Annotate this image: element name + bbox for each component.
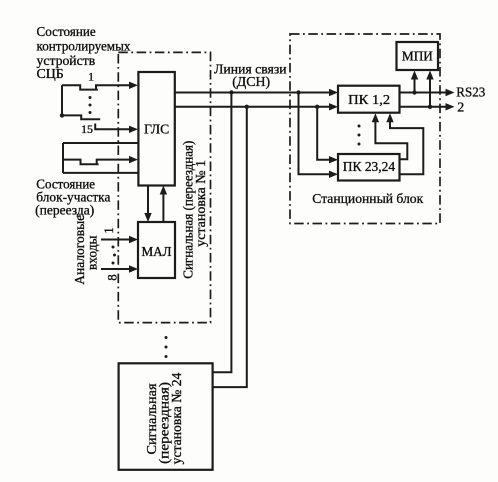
junction dot line A x414 <box>412 90 416 94</box>
arrowhead up into MPI left <box>411 71 418 80</box>
ellipsis dots between installation boxes <box>165 336 168 339</box>
wire: analog input 8 <box>101 268 134 270</box>
wire: block-section top line <box>63 142 138 144</box>
wire: MAL-GLS up link <box>162 190 164 222</box>
svg-text:(ДСН): (ДСН) <box>232 75 270 90</box>
wire: SCB bus vertical <box>61 85 63 115</box>
wire: line B (DSN line lower) GLS to PK1,2 <box>175 106 334 108</box>
block PK 23,24 <box>338 154 400 181</box>
svg-text:МПИ: МПИ <box>402 50 433 65</box>
wire: drop from line A to PK23,24 <box>299 93 334 175</box>
wire: drop from line B to PK23,24 <box>317 107 333 160</box>
arrowhead line B into PK1,2 <box>329 103 338 110</box>
wire: GLS-MAL down link <box>147 186 149 218</box>
block MAL <box>138 222 175 278</box>
svg-text:1: 1 <box>101 227 116 234</box>
arrowhead into GLS block-section <box>129 156 138 163</box>
ellipsis dots SCB contacts <box>89 96 92 99</box>
dashed box: signal installation No.1 <box>118 52 210 322</box>
svg-text:установка № 24: установка № 24 <box>170 373 185 465</box>
svg-text:МАЛ: МАЛ <box>142 245 172 260</box>
svg-text:8: 8 <box>105 274 120 281</box>
arrowhead chain outer into PK1,2 bottom <box>386 113 393 122</box>
arrowhead RS232 upper <box>446 89 455 96</box>
svg-text:входы: входы <box>85 235 100 270</box>
junction dot line B x247 <box>245 105 249 109</box>
arrowhead line A into PK1,2 <box>329 89 338 96</box>
svg-text:ПК 1,2: ПК 1,2 <box>348 93 390 108</box>
junction dot SCB bus <box>60 113 64 117</box>
svg-text:1: 1 <box>88 70 94 84</box>
svg-text:ПК 23,24: ПК 23,24 <box>343 160 395 175</box>
wire: riser line B to MPI <box>429 75 431 107</box>
svg-text:15: 15 <box>81 122 93 136</box>
junction dot line A x298 <box>296 90 300 94</box>
contact K1 (SCB input 1) <box>62 85 98 89</box>
block PK 1,2 <box>338 86 400 113</box>
ellipsis dots analog inputs <box>112 246 115 249</box>
arrowhead down into MAL <box>144 213 151 222</box>
arrowhead into GLS input 15 <box>129 126 138 133</box>
svg-text:СЦБ: СЦБ <box>37 67 64 82</box>
arrowhead into MAL input 8 <box>129 265 138 272</box>
wire: drop from line A to installation 24 <box>213 93 232 373</box>
block MPI <box>397 42 439 70</box>
dashed box: station block <box>290 34 440 224</box>
svg-text:контролируемых: контролируемых <box>37 39 131 54</box>
arrowhead into PK23,24 lower <box>329 171 338 178</box>
svg-text:Состояние: Состояние <box>37 25 96 40</box>
arrowhead chain inner into PK1,2 bottom <box>372 113 379 122</box>
wire: riser line A to MPI <box>414 75 416 93</box>
svg-text:2: 2 <box>457 100 464 115</box>
arrowhead into GLS input 1 <box>129 82 138 89</box>
arrowhead RS232 lower <box>446 103 455 110</box>
block installation No.24 <box>119 363 213 470</box>
wire: drop from line B to installation 24 <box>213 107 247 387</box>
block GLS <box>138 72 174 186</box>
svg-text:Станционный блок: Станционный блок <box>312 192 423 207</box>
wire: line A (DSN line upper) GLS to PK1,2 <box>175 92 334 94</box>
contact K16 (block-section/crossing) <box>63 160 99 165</box>
junction dot line A x231 <box>229 90 233 94</box>
wire: chain inner PK23,24 to PK1,2 <box>375 117 407 159</box>
arrowhead into PK23,24 upper <box>329 156 338 163</box>
wire: analog input 1 <box>101 239 134 241</box>
arrowhead up into GLS bottom <box>160 186 167 195</box>
svg-text:RS23: RS23 <box>456 86 485 101</box>
arrowhead into MAL input 1 <box>129 236 138 243</box>
wire: line B out of PK1,2 to RS232 <box>400 106 451 108</box>
contact K15 (SCB input 15) <box>62 115 100 119</box>
ellipsis dots between PK blocks <box>358 125 361 128</box>
junction dot line B x430 <box>428 105 432 109</box>
svg-text:ГЛС: ГЛС <box>144 122 169 137</box>
svg-text:установка № 1: установка № 1 <box>194 160 209 247</box>
arrowhead up into MPI right <box>426 71 433 80</box>
wire: block-section bottom line <box>63 172 138 174</box>
wire: chain outer PK23,24 to PK1,2 <box>390 117 423 174</box>
junction dot line B x317 <box>315 105 319 109</box>
wire: line A out of PK1,2 to RS232 <box>400 92 451 94</box>
wire: block-section bus vertical <box>62 143 64 173</box>
